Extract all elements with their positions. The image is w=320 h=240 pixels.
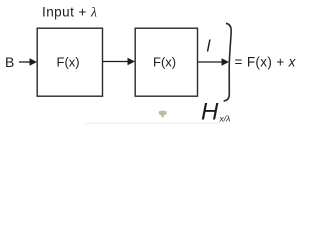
svg-text:B: B bbox=[5, 54, 14, 70]
svg-text:x/λ: x/λ bbox=[219, 114, 231, 124]
wire block F2 to output bbox=[198, 61, 223, 63]
bracket stroke annotation bbox=[224, 23, 232, 101]
faint artifact strip bbox=[85, 123, 220, 125]
wire B to block F1 bbox=[19, 61, 31, 63]
smudge mark bbox=[159, 111, 167, 118]
svg-text:H: H bbox=[201, 99, 219, 126]
svg-text:= F(x) + x: = F(x) + x bbox=[235, 55, 297, 70]
svg-text:Input + λ: Input + λ bbox=[42, 5, 97, 20]
svg-text:l: l bbox=[207, 37, 212, 56]
block F1 bbox=[37, 28, 102, 96]
wire block F1 to block F2 bbox=[103, 61, 129, 63]
svg-text:F(x): F(x) bbox=[57, 55, 80, 70]
svg-text:F(x): F(x) bbox=[153, 55, 176, 70]
block F2 bbox=[135, 28, 197, 96]
